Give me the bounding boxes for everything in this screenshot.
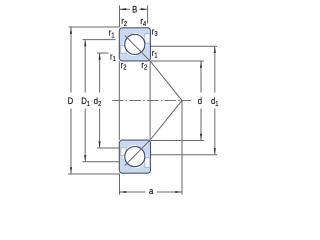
lower ball pocket white gap <box>123 145 146 168</box>
lower bearing section <box>119 101 182 174</box>
label r2 bottom left <box>121 59 127 72</box>
upper ball <box>125 34 145 54</box>
dimension a line <box>120 191 183 193</box>
lower ball <box>125 147 145 167</box>
label r2 bottom right <box>141 59 147 72</box>
arrow d1 down <box>214 148 216 155</box>
dimension D line <box>70 27 72 174</box>
label r4 top right <box>140 15 146 28</box>
label d1 <box>211 95 219 108</box>
dimension d2 extension line top <box>97 52 109 54</box>
upper inner-ring groove (blue over pocket, bottom-right) <box>135 44 149 59</box>
svg-text:D: D <box>68 95 74 106</box>
svg-text:d: d <box>198 95 202 106</box>
dimension D1 extension line top <box>83 39 116 41</box>
upper cage box left <box>121 45 126 53</box>
arrow B right <box>141 8 148 10</box>
dimension D1 extension line bottom <box>83 161 120 163</box>
upper contact angle line <box>125 35 182 100</box>
dimension B right extension line <box>147 5 149 23</box>
label r1 upper left outer <box>109 27 115 40</box>
arrow d2 down <box>99 141 101 148</box>
lower contact angle line <box>125 101 182 166</box>
label a <box>149 185 153 196</box>
dimension d2 line <box>99 53 101 148</box>
arrow D1 down <box>84 155 86 162</box>
dimension d extension line bottom <box>151 140 204 142</box>
dimension d extension line top <box>151 60 204 62</box>
dimension D extension line top <box>69 26 120 28</box>
arrow B left <box>120 8 127 10</box>
pressure centre vertical line <box>181 101 183 195</box>
arrow D down <box>70 167 72 174</box>
dimension B left extension line <box>119 5 121 27</box>
arrow d down <box>200 134 202 141</box>
label d2 <box>94 95 102 108</box>
dimension d1 extension line top <box>151 45 218 47</box>
label r1 mid right <box>152 47 158 60</box>
lower inner-ring groove (blue over pocket, top-right) <box>135 142 149 157</box>
arrow a left <box>120 191 127 193</box>
label D1 <box>81 95 90 108</box>
dimension d2 extension line bottom <box>97 147 119 149</box>
dimension a left extension line <box>119 174 121 195</box>
arrow D up <box>70 27 72 34</box>
dimension d1 line <box>214 46 216 155</box>
centre axis (dash-dot) <box>112 100 191 102</box>
dimension D1 line <box>84 40 86 162</box>
upper bearing section <box>119 28 182 101</box>
svg-text:B: B <box>132 4 137 15</box>
upper ball pocket white gap <box>123 33 146 56</box>
label r1 mid left <box>110 50 116 63</box>
label D <box>68 95 74 106</box>
lower bearing ring body <box>119 140 150 173</box>
arrow D1 up <box>84 40 86 47</box>
upper outer-ring groove (blue over pocket, top-left) <box>121 30 135 45</box>
arrowheads <box>70 8 216 193</box>
label d <box>198 95 202 106</box>
lower cage box left <box>121 148 126 156</box>
label r2 top left <box>121 15 127 28</box>
arrow d1 up <box>214 46 216 53</box>
dimension d1 extension line bottom <box>151 154 218 156</box>
dimension B line <box>120 8 148 10</box>
label B <box>132 4 137 15</box>
dimension d line <box>200 61 202 141</box>
upper bearing ring body <box>119 28 150 61</box>
label r3 upper right <box>152 25 158 38</box>
arrow d2 up <box>99 53 101 60</box>
arrow d up <box>200 61 202 67</box>
bore lines connecting the two ring sections <box>118 61 120 140</box>
upper cage box right <box>145 34 150 43</box>
arrow a right <box>175 191 182 193</box>
dimension D extension line bottom <box>68 173 120 175</box>
lower outer-ring groove (blue over pocket, bottom-left) <box>121 157 135 172</box>
lower cage box right <box>145 158 150 167</box>
svg-text:a: a <box>149 185 153 196</box>
